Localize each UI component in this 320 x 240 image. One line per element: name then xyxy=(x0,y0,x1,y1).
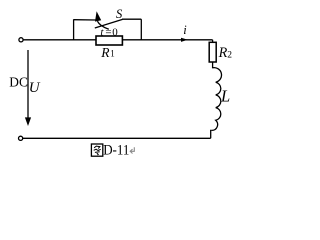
svg-text:D-11: D-11 xyxy=(103,142,129,158)
resistor R2 box xyxy=(209,42,216,62)
wire inductor to bottom xyxy=(211,130,212,138)
svg-text:U: U xyxy=(29,80,41,96)
wire left riser of switch branch xyxy=(73,19,75,40)
wire right vertical down to R2 xyxy=(212,40,214,43)
svg-text:S: S xyxy=(116,7,123,21)
svg-text:2: 2 xyxy=(227,50,232,60)
current i arrowhead xyxy=(181,38,188,42)
resistor R1 box xyxy=(96,36,122,45)
wire right riser of switch branch xyxy=(140,19,142,40)
terminal bottom-left xyxy=(19,136,23,140)
svg-text:DC: DC xyxy=(9,74,28,89)
svg-text:R: R xyxy=(100,45,110,60)
wire R2 to inductor xyxy=(212,62,214,68)
caption glyph 图 (drawn) xyxy=(91,144,102,156)
wire switch branch right xyxy=(122,18,141,20)
terminal top-left xyxy=(19,38,23,42)
voltage U arrow line xyxy=(27,50,29,119)
voltage U arrowhead xyxy=(25,117,31,126)
inductor L coil xyxy=(212,68,222,131)
switch S blade xyxy=(95,19,123,28)
wire top-left segment xyxy=(23,39,96,41)
svg-text:i: i xyxy=(183,23,187,37)
switch S motion arrow tail xyxy=(97,21,108,29)
wire top-right segment xyxy=(122,39,212,41)
caption return mark xyxy=(130,147,134,153)
svg-text:L: L xyxy=(220,87,230,106)
switch S motion arrowhead xyxy=(95,11,101,21)
svg-text:1: 1 xyxy=(110,48,115,58)
wire switch branch left xyxy=(74,19,96,21)
svg-text:=0: =0 xyxy=(105,27,118,39)
wire bottom xyxy=(23,137,211,139)
svg-text:R: R xyxy=(218,45,228,61)
